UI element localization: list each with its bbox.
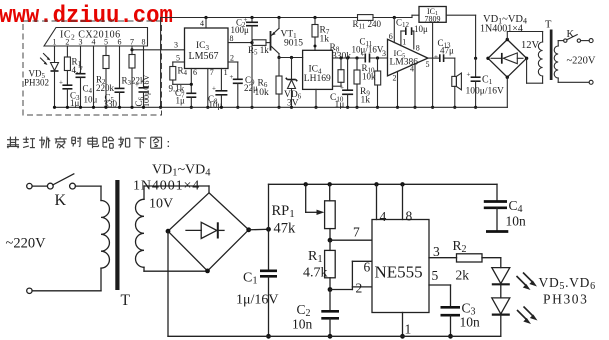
transformer T transmitter core: [115, 180, 119, 290]
svg-text:7: 7: [210, 68, 214, 77]
svg-text:9015: 9015: [284, 39, 303, 49]
wire pin3 + capacitor C4 10u: [80, 46, 82, 74]
LM567 pin5 stub + resistor R4 9.1k: [173, 61, 185, 63]
svg-text:1: 1: [224, 68, 228, 77]
mains terminals receiver: [589, 39, 593, 43]
capacitor C1 1u/16V transmitter: [268, 229, 270, 270]
svg-text:10μ/16V: 10μ/16V: [352, 45, 384, 55]
NE555 pin1: [402, 313, 404, 337]
svg-text:10n: 10n: [460, 315, 481, 330]
svg-text:+: +: [135, 81, 139, 89]
svg-text:8: 8: [142, 38, 146, 47]
IC2 pin numbers 1-8: [53, 38, 146, 47]
light arrows into VD5: [44, 54, 50, 60]
svg-text:220k: 220k: [96, 83, 115, 93]
svg-text:8: 8: [230, 34, 234, 43]
svg-text:7: 7: [353, 225, 360, 240]
wire pin6 + capacitor C5 330: [119, 46, 121, 88]
LM386 pins 1-8 with capacitor C12 10u: [400, 31, 402, 46]
emission arrows LED2: [517, 310, 528, 321]
svg-text:2: 2: [356, 281, 363, 296]
svg-text:+: +: [212, 85, 216, 93]
svg-text:2: 2: [230, 54, 234, 63]
resistor R10 10k: [356, 58, 358, 70]
svg-text::: :: [167, 135, 171, 150]
svg-text:100μ/16V: 100μ/16V: [142, 74, 151, 107]
IC4 LH169: [303, 50, 333, 89]
LM386 pin5 output: [428, 57, 440, 59]
svg-text:1: 1: [53, 38, 57, 47]
ground rail receiver: [55, 106, 508, 108]
transformer T receiver core: [550, 30, 553, 81]
svg-text:8: 8: [416, 44, 420, 53]
collector node wire to IC4: [277, 56, 280, 59]
resistor R11 240 in rail: [358, 15, 374, 21]
svg-text:4: 4: [380, 209, 387, 224]
svg-text:2: 2: [65, 38, 69, 47]
switch K receiver: [564, 39, 567, 42]
svg-text:PH302: PH302: [24, 78, 49, 88]
switch K transmitter: [27, 183, 32, 188]
bridge AC right to secondary bottom: [526, 58, 528, 83]
capacitor C4 10n: [496, 184, 498, 201]
svg-text:10k: 10k: [255, 88, 270, 98]
svg-text:T: T: [121, 292, 131, 309]
svg-text:+: +: [434, 53, 438, 61]
wire pin5 + resistor R2 220k: [105, 46, 107, 56]
top supply rail: [161, 17, 358, 19]
capacitor C2 10n: [329, 290, 331, 312]
emission arrows LED1: [517, 276, 528, 287]
caption chinese text: [7, 137, 162, 149]
svg-text:5: 5: [176, 54, 180, 63]
capacitor C2 100u decoupling: [251, 18, 253, 23]
svg-text:4.7k: 4.7k: [303, 266, 328, 281]
resistor R7 1k: [314, 18, 316, 25]
svg-text:1μ: 1μ: [70, 98, 80, 108]
svg-text:7: 7: [130, 38, 134, 47]
svg-text:6: 6: [193, 68, 197, 77]
timer NE555: [372, 220, 429, 313]
svg-text:4: 4: [200, 19, 204, 28]
svg-text:2k: 2k: [456, 268, 470, 283]
NE555 pin4: [376, 184, 378, 219]
svg-text:3: 3: [382, 49, 386, 58]
NE555 pin3 output: [429, 257, 457, 259]
svg-text:LM567: LM567: [189, 51, 219, 62]
svg-text:+: +: [73, 68, 77, 76]
svg-text:10V: 10V: [149, 197, 173, 212]
svg-text:T: T: [545, 20, 552, 31]
svg-text:10n: 10n: [506, 214, 527, 229]
LM567 pin8 stub: [228, 42, 252, 44]
transformer T receiver secondary winding: [542, 32, 544, 43]
svg-text:3: 3: [433, 244, 440, 259]
svg-text:www.dziuu.com: www.dziuu.com: [0, 3, 173, 30]
svg-text:~220V: ~220V: [567, 56, 596, 67]
LM386 pin4: [414, 64, 416, 107]
svg-text:3: 3: [174, 41, 178, 50]
svg-text:1: 1: [402, 38, 406, 47]
svg-text:K: K: [55, 192, 67, 209]
bridge rectifier VD1-VD4 receiver: [488, 40, 527, 78]
LM567 pin4 to rail: [205, 18, 207, 29]
svg-text:12V: 12V: [521, 40, 540, 51]
wire pin8 + capacitor C6 100u/16V: [143, 46, 145, 88]
svg-text:6: 6: [389, 32, 393, 41]
resistor R2 2k: [457, 254, 483, 262]
svg-text:10k: 10k: [362, 72, 376, 82]
wire IC2 pin7 output to LM567 pin3: [132, 49, 185, 51]
svg-text:5: 5: [104, 38, 108, 47]
resistor R9 1k: [377, 58, 379, 71]
bridge rectifier VD1-VD4 transmitter: [168, 193, 249, 271]
svg-text:6: 6: [118, 38, 122, 47]
resistor R5 1k: [253, 40, 267, 46]
wire pin2 + resistor R1 4.7: [66, 46, 68, 57]
resistor R1 4.7k: [329, 240, 331, 250]
svg-text:1μ: 1μ: [335, 100, 345, 110]
LM567 pin1 + capacitor C8 10u: [220, 69, 222, 91]
svg-text:8: 8: [406, 209, 413, 224]
svg-text:R5 1k: R5 1k: [248, 45, 269, 57]
LM567 pin6 + capacitor C7 1u: [190, 69, 192, 94]
bridge DC- down to rail: [506, 77, 508, 107]
LM567 pin7 wire: [207, 69, 209, 108]
svg-text:1μ/16V: 1μ/16V: [236, 293, 279, 308]
svg-text:2: 2: [393, 74, 397, 83]
transformer T receiver primary winding: [557, 41, 559, 46]
svg-text:VD1~VD4: VD1~VD4: [152, 163, 211, 179]
transistor VT1 9015: [266, 42, 271, 44]
receiver dashed enclosure: [23, 21, 162, 115]
transformer T transmitter secondary: [143, 186, 145, 199]
bridge + output wire: [249, 228, 269, 231]
op-amp IC5 LM386: [388, 39, 428, 76]
svg-text:47μ: 47μ: [440, 46, 454, 56]
LM567 pin2 + capacitor C9 22u: [228, 61, 238, 63]
speaker: [454, 58, 456, 76]
NE555 pin5 + capacitor C3 10n: [429, 284, 451, 286]
svg-text:+: +: [59, 79, 63, 87]
bridge AC top stub: [506, 32, 508, 40]
signal line IC4 out: [333, 57, 366, 59]
svg-text:+: +: [467, 71, 471, 79]
svg-text:3: 3: [79, 38, 83, 47]
wire pin4: [93, 46, 95, 107]
svg-text:10μ: 10μ: [84, 95, 98, 105]
svg-text:5: 5: [426, 60, 430, 69]
svg-text:47k: 47k: [274, 221, 297, 237]
svg-text:100μ/16V: 100μ/16V: [466, 87, 504, 97]
resistor R8 330k feedback: [340, 58, 342, 70]
IC1 7809 regulator: [419, 7, 446, 23]
NE555 pin8: [402, 184, 404, 219]
resistor R6 10k: [278, 58, 280, 77]
riser to supply rail: [268, 184, 270, 229]
wire pin1: [54, 46, 56, 63]
svg-text:1k: 1k: [320, 35, 330, 45]
ground rail transmitter: [168, 335, 501, 337]
svg-text:1N4001×4: 1N4001×4: [480, 24, 523, 35]
svg-text:4: 4: [410, 65, 414, 74]
IC3 LM567: [185, 28, 229, 69]
LM386 pin2: [397, 71, 399, 107]
svg-text:+: +: [340, 84, 344, 92]
svg-text:330k: 330k: [332, 52, 351, 62]
LM386 pin6 to rail: [393, 18, 395, 43]
transformer T transmitter primary: [100, 186, 102, 200]
infrared LEDs VD5 VD6 PH303: [492, 268, 510, 284]
svg-text:6: 6: [364, 260, 371, 275]
svg-text:PH303: PH303: [543, 292, 589, 307]
svg-text:R11 240: R11 240: [353, 19, 382, 31]
wire RP1/R1 node to pin7: [330, 239, 372, 241]
svg-text:5: 5: [432, 268, 439, 283]
svg-text:VD5.VD6: VD5.VD6: [539, 275, 596, 292]
capacitor C1 100u/16V filter: [474, 57, 477, 60]
svg-text:1k: 1k: [361, 96, 371, 106]
svg-text:NE555: NE555: [375, 263, 423, 282]
IC2 CX20106 body: [44, 28, 148, 47]
capacitor C3 1u: [62, 84, 72, 86]
svg-text:4: 4: [92, 38, 96, 47]
svg-text:1N4001×4: 1N4001×4: [133, 179, 200, 194]
vertical wire at dashed box edge: [160, 18, 162, 108]
svg-text:1μ: 1μ: [176, 96, 186, 106]
svg-text:LH169: LH169: [304, 74, 331, 84]
svg-text:100μ: 100μ: [231, 25, 250, 35]
svg-text:10n: 10n: [292, 317, 313, 332]
svg-text:C1: C1: [482, 75, 493, 87]
capacitor C13 47u: [439, 54, 441, 62]
capacitor C10 1u: [347, 58, 349, 90]
photodiode VD5 PH302: [51, 63, 59, 71]
svg-text:~220V: ~220V: [6, 236, 47, 252]
capacitor C11 10u/16V coupling: [364, 54, 366, 63]
supply rail transmitter: [269, 183, 498, 185]
svg-text:10μ: 10μ: [414, 24, 428, 34]
svg-text:K: K: [567, 29, 575, 40]
svg-text:+: +: [230, 73, 234, 81]
svg-text:1: 1: [405, 322, 412, 337]
wire pin7 + resistor R3 22k: [131, 46, 133, 55]
wire R1 bottom to pins 6,2: [330, 289, 352, 291]
bridge left corner to ground rail: [167, 231, 169, 336]
zener VD6 3V: [290, 56, 293, 59]
